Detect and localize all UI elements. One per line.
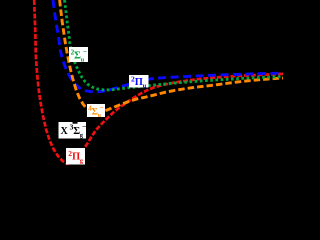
svg-text:−: −	[82, 122, 86, 131]
label box 2Pi_g (red state label)	[66, 148, 85, 165]
label box 2Pi_u (blue state label)	[129, 75, 149, 90]
svg-text:X: X	[61, 126, 69, 137]
svg-text:u: u	[81, 57, 85, 64]
svg-text:−: −	[83, 47, 87, 56]
black curve dash crossing label box top	[73, 121, 78, 124]
curve 2Pi_g (red dashed potential curve)	[34, 0, 283, 164]
curve 2Pi_u (blue long-dashed potential curve)	[53, 0, 283, 92]
svg-text:−: −	[100, 104, 104, 112]
svg-text:u: u	[143, 82, 147, 89]
label box 2Sigma_u- (green state label)	[69, 47, 88, 64]
curve 2Sigma_u- (green dotted potential curve)	[65, 0, 284, 90]
label box X 3Sigma_g- (black state label)	[59, 121, 87, 139]
label box 4Sigma_u- (orange state label)	[87, 104, 105, 119]
curve 4Sigma_u- (orange dashed potential curve)	[60, 0, 283, 113]
